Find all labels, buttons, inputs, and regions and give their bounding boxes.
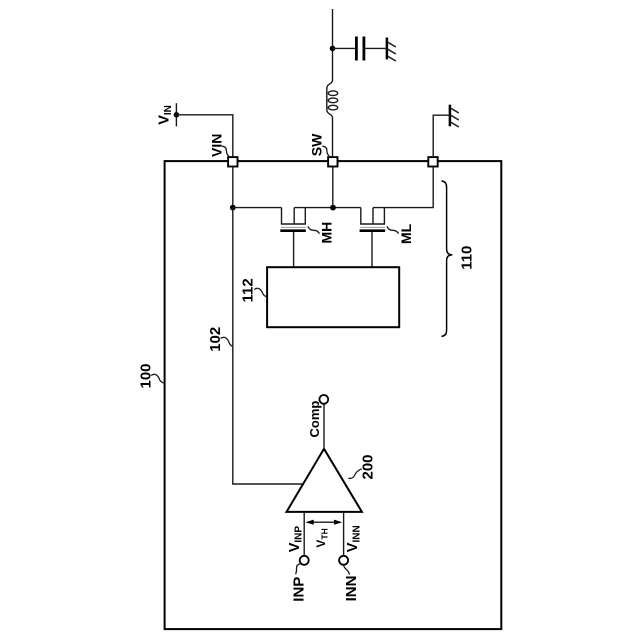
terminal circle INN — [339, 556, 348, 565]
wire rail ML source to right terminal — [373, 167, 433, 208]
leader for 112 — [254, 288, 267, 297]
label 100 — [138, 363, 155, 388]
svg-text:110: 110 — [459, 246, 476, 270]
leader 200 — [348, 469, 362, 478]
leader SW — [322, 146, 329, 156]
svg-text:112: 112 — [240, 278, 257, 302]
supply tick VIN source — [175, 103, 177, 126]
svg-text:VIN: VIN — [208, 134, 224, 157]
transistor MH — [280, 208, 306, 231]
wire rail MH source to ML drain — [294, 207, 361, 209]
wire capacitor to ground — [365, 47, 385, 49]
wire input INN stub — [343, 512, 345, 556]
wire node to capacitor — [333, 47, 356, 49]
svg-text:Comp: Comp — [307, 401, 322, 438]
ground top — [387, 38, 396, 62]
label Comp — [307, 401, 322, 438]
wire ground pin up to ground symbol — [433, 115, 449, 157]
svg-text:INP: INP — [290, 577, 307, 602]
wire input INP stub — [303, 512, 305, 556]
label 102 — [207, 327, 224, 352]
junction dot SW rail — [330, 205, 336, 211]
ground right — [450, 105, 459, 127]
leader INP — [296, 564, 301, 575]
terminal circle Comp — [319, 395, 328, 404]
svg-text:100: 100 — [138, 363, 155, 388]
leader for 100 — [151, 374, 164, 383]
brace 110 — [441, 181, 452, 336]
inductor L — [327, 81, 338, 118]
gate lead MH — [293, 232, 295, 267]
label VIN terminal — [208, 134, 224, 157]
leader MH — [308, 226, 320, 233]
svg-text:SW: SW — [308, 133, 324, 156]
transistor ML — [360, 208, 386, 231]
svg-text:INN: INN — [343, 576, 360, 602]
junction dot VIN rail — [230, 205, 236, 211]
leader VIN terminal — [222, 146, 229, 156]
label MH — [318, 222, 334, 244]
arrow VTH — [305, 520, 342, 525]
label 112 — [240, 278, 257, 302]
label SW — [308, 133, 324, 156]
label INN — [343, 576, 360, 602]
label INP — [290, 577, 307, 602]
capacitor C — [356, 37, 364, 61]
label VINP — [287, 526, 305, 553]
leader ML — [387, 226, 399, 233]
wire comparator output — [323, 404, 325, 449]
gate lead ML — [371, 232, 373, 267]
wire rail VIN node to MH drain — [233, 207, 282, 209]
svg-text:102: 102 — [207, 327, 224, 352]
label V_IN supply — [156, 105, 174, 125]
terminal square VIN — [228, 157, 237, 166]
wire inductor to SW square — [332, 118, 334, 158]
op-amp comparator 200 — [287, 449, 362, 512]
wire VIN supply to VIN terminal — [176, 115, 232, 157]
wire top output node feed — [332, 9, 334, 81]
label ML — [398, 223, 414, 244]
wire VIN square to rail — [232, 167, 234, 208]
label 200 — [360, 454, 377, 479]
svg-text:ML: ML — [398, 223, 414, 244]
box 112 (gate driver) — [267, 267, 399, 327]
svg-text:200: 200 — [360, 454, 377, 479]
label VTH — [314, 528, 330, 547]
wire SW square to rail — [332, 167, 334, 208]
box 100 (IC outline) — [165, 161, 502, 629]
junction dot output node — [330, 46, 336, 52]
label VINN — [345, 525, 363, 552]
leader for 102 — [221, 337, 233, 346]
label 110 — [459, 246, 476, 270]
terminal square SW — [328, 157, 337, 166]
junction dot VIN supply — [174, 112, 180, 118]
svg-text:MH: MH — [318, 222, 334, 244]
terminal circle INP — [300, 556, 309, 565]
terminal square ground pin — [428, 157, 437, 166]
wire 102 down to comparator input — [233, 208, 304, 484]
leader INN — [344, 565, 350, 575]
